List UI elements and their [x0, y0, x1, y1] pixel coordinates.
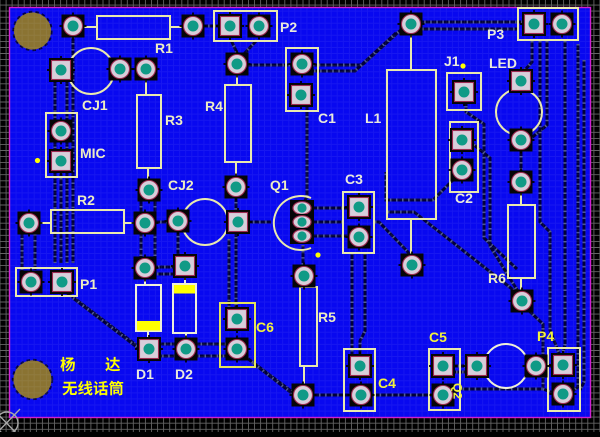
wire CJ2 to Q1: [247, 221, 271, 224]
svg-text:Q1: Q1: [270, 177, 289, 193]
capacitor C3 body: [343, 192, 374, 253]
origin marker: [0, 409, 20, 437]
pad L1.1: [398, 11, 425, 38]
svg-text:Q2: Q2: [451, 383, 465, 399]
wire Q1 pad2 left seg: [311, 221, 342, 224]
svg-text:C4: C4: [378, 375, 396, 391]
pad D1.1: [132, 255, 159, 282]
pad P4.2: [550, 381, 577, 408]
LED outline: [496, 89, 542, 135]
pad P1.2: [48, 268, 76, 296]
pad R3.2: [136, 177, 163, 204]
wire CJ1/MIC column b: [54, 80, 57, 263]
R3 lead bottom: [147, 168, 149, 182]
pad R2.1: [16, 210, 43, 237]
wire C6 to R5 a: [247, 358, 299, 397]
mounting hole top-left: [13, 12, 52, 51]
wire bus y395: [313, 389, 543, 395]
pad R1.1: [60, 13, 87, 40]
pad R4.1: [224, 51, 251, 78]
transistor Q2 outline: [484, 344, 528, 388]
wire R3 to D1 a: [140, 200, 143, 258]
R2 lead left: [37, 222, 51, 224]
wire bottom bus b: [150, 355, 233, 358]
wire P3 to LED a: [524, 41, 532, 71]
svg-text:D1: D1: [136, 366, 154, 382]
pad C2.1: [448, 126, 476, 154]
connector P2 body: [214, 11, 277, 41]
diode D2 body: [173, 284, 196, 333]
svg-text:J1: J1: [444, 53, 460, 69]
wire LED to R6: [520, 150, 523, 172]
diode D1 body: [136, 285, 161, 331]
pad CJ2.1: [165, 208, 192, 235]
resistor R2 body: [51, 210, 124, 233]
connector J1 body: [447, 73, 481, 110]
R1 lead left: [80, 26, 97, 28]
wire under L1: [388, 212, 521, 296]
MIC pin1 dot: [35, 158, 40, 163]
wire top-right a: [406, 21, 524, 24]
pad Q1.1: [290, 200, 314, 216]
R4 lead bottom: [235, 162, 237, 179]
inductor L1 body: [387, 70, 436, 219]
svg-text:C2: C2: [455, 190, 473, 206]
svg-text:R6: R6: [488, 270, 506, 286]
pad C5.2: [430, 382, 457, 409]
pad R5.1: [291, 263, 318, 290]
capacitor C5 body: [429, 349, 460, 410]
pad R6.1: [508, 169, 535, 196]
wire P2 pad2 down: [242, 40, 257, 56]
wire J1 down: [466, 100, 517, 269]
connector P4 body: [548, 348, 580, 411]
capacitor C1 body: [286, 48, 318, 111]
svg-text:L1: L1: [365, 110, 382, 126]
pad CJ2.2: [224, 208, 252, 236]
pad LED.2: [508, 127, 535, 154]
svg-text:CJ1: CJ1: [82, 97, 108, 113]
wire C1 down: [304, 104, 307, 203]
resistor R1 body: [97, 16, 170, 39]
R4 lead top: [236, 73, 238, 85]
wire Q1 pad2 right seg: [375, 222, 411, 257]
wire C3 to C4 b: [360, 253, 365, 356]
wire P1 to D1 b: [73, 298, 146, 354]
pad C1.2: [287, 81, 315, 109]
wire R3 to D1 b: [154, 200, 157, 258]
J1 pin1 dot: [460, 63, 465, 68]
wire D1 to D2 low: [157, 273, 176, 276]
wire R1 to P2: [202, 25, 218, 28]
R6 lead bottom: [520, 278, 522, 292]
wire CJ2 to C6 a: [228, 239, 231, 310]
pad MIC.1: [48, 118, 75, 145]
wire right long a: [540, 41, 560, 356]
wire R4 to CJ2: [235, 196, 238, 213]
wire CJ2 to D2: [178, 230, 183, 261]
pad C3.1: [345, 193, 373, 221]
svg-text:CJ2: CJ2: [168, 177, 194, 193]
trimmer CJ2 outline: [182, 199, 228, 245]
pad J1.1: [450, 78, 478, 106]
pad P3.2: [549, 11, 576, 38]
resistor R5 body: [300, 287, 317, 366]
text wuxianhuatong: [62, 381, 123, 396]
wire P2 pad1 down: [231, 40, 238, 55]
svg-text:D2: D2: [175, 366, 193, 382]
pad D2.2: [173, 336, 200, 363]
wire Q1 to R5: [302, 245, 305, 266]
L1 lead top: [410, 33, 412, 70]
wire R6 to P4: [524, 306, 554, 393]
pad P2.1: [216, 12, 244, 40]
wire bottom bus a: [140, 343, 233, 346]
pad CJ1.1: [47, 56, 75, 84]
text da: [105, 357, 120, 371]
wire C6 to R5 b: [253, 363, 298, 398]
wire D1 to D2: [152, 266, 177, 269]
pad D1.2: [135, 335, 163, 363]
R2 lead right: [124, 222, 137, 224]
pad R6.2: [509, 288, 536, 315]
connector P1 body: [16, 268, 77, 296]
svg-text:P4: P4: [537, 328, 554, 344]
wire P3 to LED b: [529, 41, 547, 140]
wire bus y65: [240, 27, 404, 65]
pad Q2.2: [523, 353, 550, 380]
svg-text:MIC: MIC: [80, 145, 106, 161]
wire right long c: [570, 44, 578, 393]
wire C5 to Q2 a: [452, 365, 468, 368]
pad C6.2: [224, 336, 251, 363]
wire CJ1/MIC column a: [72, 37, 75, 263]
wire C5 to Q2 b: [450, 371, 466, 374]
pad R2.2: [132, 210, 159, 237]
pad R5.2: [290, 382, 317, 409]
svg-text:P1: P1: [80, 276, 97, 292]
svg-text:R2: R2: [77, 192, 95, 208]
svg-text:C1: C1: [318, 110, 336, 126]
pad R1.2: [180, 13, 207, 40]
D1 lead bottom: [147, 331, 149, 341]
capacitor C2 body: [450, 122, 478, 192]
pad Q1.3: [290, 228, 314, 244]
pad CJ1.2: [107, 56, 134, 83]
pad Q1.2: [290, 214, 314, 230]
wire right long b: [563, 41, 565, 352]
L1 lead bottom: [410, 219, 412, 256]
wire C3 to C4 a: [351, 253, 354, 356]
wire Q2 to P4: [545, 365, 554, 368]
pad Q2.1: [463, 352, 491, 380]
svg-text:R4: R4: [205, 98, 223, 114]
wire CJ2 to C6 b: [235, 231, 238, 312]
text yang: [60, 357, 75, 372]
wire R2 to P1 b: [21, 232, 24, 271]
capacitor C6 body: [220, 303, 255, 367]
connector P3 body: [518, 8, 578, 40]
R5 lead top: [303, 283, 305, 287]
pad C3.2: [346, 224, 373, 251]
pad C1.1: [289, 51, 316, 78]
D1 lead top: [144, 276, 146, 285]
svg-text:C5: C5: [429, 329, 447, 345]
microphone MIC body: [46, 113, 77, 177]
R3 lead top: [145, 78, 147, 95]
wire CJ1/MIC column c: [66, 80, 69, 263]
svg-text:LED: LED: [489, 55, 517, 71]
resistor R6 body: [508, 205, 535, 278]
pad C4.2: [348, 382, 375, 409]
pad C6.1: [223, 305, 251, 333]
wire Q1 pad1 to C3: [311, 207, 349, 210]
pad R4.2: [223, 174, 250, 201]
svg-text:C3: C3: [345, 171, 363, 187]
R1 lead right: [170, 26, 186, 28]
transistor Q1 outline: [274, 196, 311, 250]
svg-text:P2: P2: [280, 19, 297, 35]
wire top-right b: [404, 28, 519, 31]
wire P1 to D1 a: [66, 292, 136, 345]
svg-text:P3: P3: [487, 26, 504, 42]
pad CJ1.3: [133, 56, 160, 83]
svg-text:R5: R5: [318, 309, 336, 325]
pad D2.1: [171, 252, 199, 280]
pad C2.2: [449, 157, 476, 184]
D2 lead top: [184, 274, 186, 284]
pad L1.2: [399, 252, 426, 279]
R5 lead bottom: [303, 366, 305, 386]
pad MIC.2: [47, 147, 75, 175]
pad P3.1: [520, 10, 548, 38]
D2 lead bottom: [185, 333, 187, 341]
capacitor C4 body: [344, 349, 375, 411]
Q1 pin1 dot: [315, 252, 320, 257]
diode D1 cathode band: [137, 321, 160, 331]
diode D2 cathode band: [174, 285, 195, 294]
wire Q1 pad3 to C3: [311, 235, 349, 238]
pad P4.1: [549, 351, 577, 379]
pad LED.1: [507, 67, 535, 95]
resistor R3 body: [137, 95, 161, 168]
wire right long d: [580, 60, 584, 390]
wire C2 round pad: [386, 172, 455, 200]
wire R2 to CJ2: [154, 221, 169, 224]
svg-text:C6: C6: [256, 319, 274, 335]
wire bus y71: [308, 33, 396, 71]
R6 lead top: [520, 190, 522, 205]
pad P1.1: [18, 269, 45, 296]
pad C5.1: [429, 352, 457, 380]
svg-text:R3: R3: [165, 112, 183, 128]
svg-text:R1: R1: [155, 40, 173, 56]
wire C2 down: [469, 141, 519, 293]
pad P2.2: [246, 13, 273, 40]
mounting hole bottom-left: [13, 360, 53, 400]
pad C4.1: [346, 352, 374, 380]
transistor CJ1 outline: [68, 48, 114, 94]
wire MIC to P1: [60, 172, 63, 263]
resistor R4 body: [225, 85, 251, 162]
wire R2 to P1 a: [34, 234, 37, 270]
